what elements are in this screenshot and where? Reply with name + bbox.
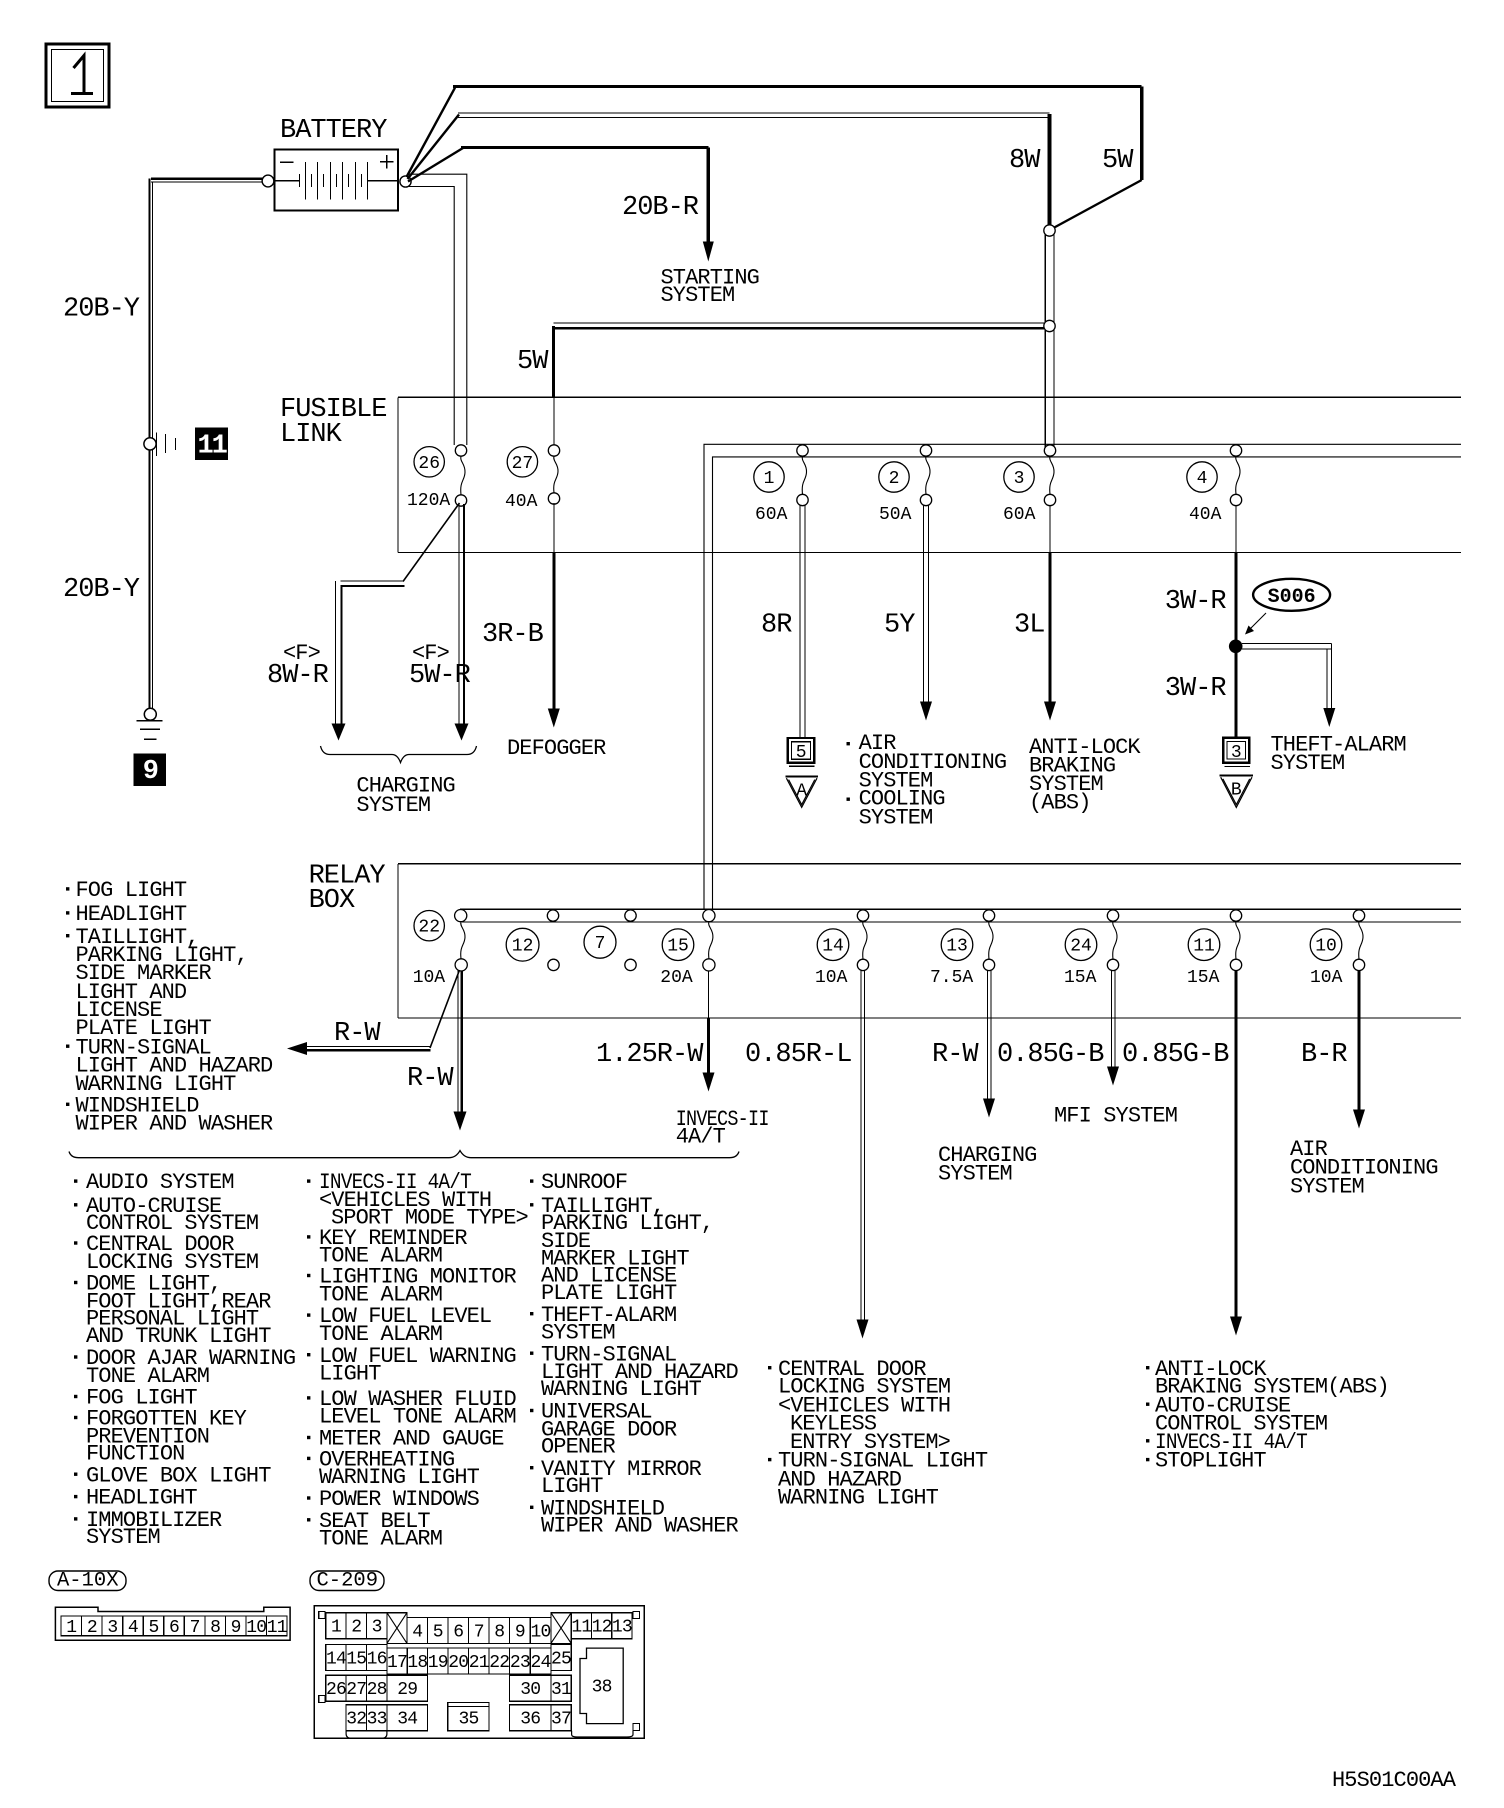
C-209 pin 2 bbox=[346, 1613, 366, 1639]
svg-text:STOPLIGHT: STOPLIGHT bbox=[1155, 1449, 1266, 1474]
svg-text:15A: 15A bbox=[1064, 968, 1097, 988]
svg-text:50A: 50A bbox=[879, 505, 912, 525]
C-209 pin 10 bbox=[530, 1617, 551, 1643]
svg-text:BATTERY: BATTERY bbox=[280, 116, 387, 146]
connector A-10X bbox=[55, 1607, 290, 1640]
fuse 4 40A bbox=[1187, 462, 1217, 492]
wire branch to theft-alarm bbox=[1242, 643, 1335, 727]
svg-text:TONE ALARM: TONE ALARM bbox=[319, 1527, 442, 1552]
svg-text:36: 36 bbox=[520, 1710, 540, 1730]
svg-text:24: 24 bbox=[1070, 937, 1092, 957]
charging system label bbox=[356, 774, 454, 818]
svg-text:7: 7 bbox=[190, 1618, 200, 1638]
C-209 pin 4 bbox=[407, 1617, 428, 1643]
svg-text:32: 32 bbox=[346, 1710, 366, 1730]
svg-text:12: 12 bbox=[512, 937, 534, 957]
svg-text:BOX: BOX bbox=[309, 886, 355, 916]
svg-text:R-W: R-W bbox=[334, 1019, 381, 1049]
svg-text:(ABS): (ABS) bbox=[1029, 791, 1091, 816]
svg-text:26: 26 bbox=[326, 1680, 346, 1700]
C-209 pin 13 bbox=[612, 1613, 632, 1639]
connector 11 in-line bbox=[144, 433, 176, 456]
fuse 3 60A bbox=[1004, 462, 1034, 492]
svg-text:FOG LIGHT: FOG LIGHT bbox=[76, 878, 187, 903]
svg-text:20: 20 bbox=[448, 1653, 468, 1673]
C-209 pin 9 bbox=[510, 1617, 531, 1643]
svg-text:9: 9 bbox=[231, 1618, 241, 1638]
svg-text:15: 15 bbox=[346, 1650, 366, 1670]
C-209 pin 31 bbox=[551, 1675, 571, 1701]
svg-text:4: 4 bbox=[128, 1618, 138, 1638]
svg-text:15A: 15A bbox=[1187, 968, 1220, 988]
svg-text:40A: 40A bbox=[505, 492, 538, 512]
svg-text:10: 10 bbox=[246, 1618, 266, 1638]
svg-text:OPENER: OPENER bbox=[541, 1435, 616, 1460]
svg-text:25: 25 bbox=[551, 1650, 571, 1670]
splice S006 callout bbox=[1245, 579, 1330, 635]
svg-text:37: 37 bbox=[551, 1710, 571, 1730]
ground number 9 box bbox=[134, 754, 166, 787]
svg-text:3W-R: 3W-R bbox=[1165, 587, 1227, 617]
svg-text:7: 7 bbox=[474, 1622, 484, 1642]
fuse 2 50A bbox=[879, 462, 909, 492]
svg-text:20A: 20A bbox=[660, 968, 693, 988]
C-209 pin 8 bbox=[489, 1617, 510, 1643]
battery BATTERY bbox=[275, 116, 399, 211]
svg-text:120A: 120A bbox=[407, 491, 450, 511]
svg-text:R-W: R-W bbox=[407, 1064, 454, 1094]
ground G9 bbox=[137, 708, 163, 739]
C-209 pin 37 bbox=[551, 1705, 571, 1731]
load list column 3 bbox=[530, 1170, 739, 1538]
air conditioning system label bbox=[847, 731, 1007, 830]
svg-text:23: 23 bbox=[510, 1653, 530, 1673]
svg-text:SYSTEM: SYSTEM bbox=[1290, 1174, 1364, 1199]
svg-text:LIGHT: LIGHT bbox=[319, 1361, 381, 1386]
svg-text:4: 4 bbox=[1197, 469, 1208, 489]
svg-text:9: 9 bbox=[515, 1622, 525, 1642]
wire 3L to ABS bbox=[1014, 506, 1056, 721]
C-209 bottom tab bbox=[346, 1731, 387, 1739]
svg-text:0.85G-B: 0.85G-B bbox=[997, 1040, 1104, 1070]
wire 8W-R to charging system bbox=[332, 503, 460, 741]
C-209 pin 20 bbox=[448, 1648, 469, 1674]
svg-text:11: 11 bbox=[197, 432, 227, 462]
C-209 pin 17 bbox=[387, 1648, 407, 1674]
wire R-W to left loads bbox=[287, 970, 460, 1055]
svg-text:38: 38 bbox=[592, 1678, 612, 1698]
svg-text:28: 28 bbox=[367, 1680, 387, 1700]
C-209 pin 3 bbox=[366, 1613, 387, 1639]
svg-text:3: 3 bbox=[1014, 469, 1025, 489]
triangle A bbox=[785, 777, 818, 808]
svg-text:27: 27 bbox=[512, 454, 534, 474]
junction node S006 bbox=[1229, 640, 1243, 654]
svg-text:10A: 10A bbox=[1310, 968, 1343, 988]
svg-text:SYSTEM: SYSTEM bbox=[938, 1162, 1012, 1187]
wire B-R to air conditioning bbox=[1301, 971, 1365, 1129]
relay box bbox=[309, 862, 1461, 1019]
svg-text:11: 11 bbox=[571, 1618, 591, 1638]
C-209 pin 16 bbox=[366, 1645, 387, 1671]
svg-text:1: 1 bbox=[66, 1618, 76, 1638]
wire 5W-R to charging system bbox=[455, 504, 469, 741]
svg-text:HEADLIGHT: HEADLIGHT bbox=[86, 1486, 197, 1511]
junction block 3 bbox=[1223, 738, 1250, 767]
svg-text:3: 3 bbox=[1231, 743, 1242, 763]
svg-text:33: 33 bbox=[367, 1710, 387, 1730]
svg-text:H5S01C00AA: H5S01C00AA bbox=[1332, 1768, 1457, 1793]
C-209 keyway X right bbox=[551, 1613, 571, 1644]
svg-text:LIGHT: LIGHT bbox=[541, 1474, 603, 1499]
svg-text:14: 14 bbox=[326, 1650, 346, 1670]
charging system brace bbox=[321, 746, 477, 763]
C-209 pin 26 bbox=[326, 1675, 346, 1701]
svg-text:26: 26 bbox=[418, 454, 440, 474]
wire 8R to junction box 5 bbox=[761, 506, 805, 739]
C-209 pin 36 bbox=[510, 1705, 551, 1731]
connector number 11 box bbox=[196, 428, 228, 461]
wire 5W to fuse 27 bbox=[517, 323, 1044, 445]
svg-text:4A/T: 4A/T bbox=[676, 1125, 726, 1150]
svg-text:8W-R: 8W-R bbox=[267, 661, 329, 691]
svg-text:60A: 60A bbox=[755, 505, 788, 525]
svg-text:29: 29 bbox=[397, 1680, 417, 1700]
svg-text:10A: 10A bbox=[413, 968, 446, 988]
svg-text:18: 18 bbox=[407, 1653, 427, 1673]
svg-text:WARNING LIGHT: WARNING LIGHT bbox=[541, 1377, 702, 1402]
label F 5W-R bbox=[409, 641, 471, 691]
svg-text:0.85G-B: 0.85G-B bbox=[1122, 1040, 1229, 1070]
svg-text:SYSTEM: SYSTEM bbox=[859, 805, 933, 830]
svg-text:S006: S006 bbox=[1268, 586, 1316, 609]
C-209 keyway X left bbox=[387, 1613, 407, 1644]
relay fuse 15 20A bbox=[660, 910, 715, 989]
svg-text:2: 2 bbox=[87, 1618, 97, 1638]
wire R-W down from fuse 22 bbox=[407, 971, 467, 1131]
svg-text:6: 6 bbox=[453, 1622, 463, 1642]
relay box bus bbox=[460, 909, 1461, 922]
C-209 pin 14 bbox=[326, 1645, 346, 1671]
connector C-209 bbox=[314, 1606, 644, 1739]
wire 20B-R to starting system bbox=[408, 148, 714, 262]
svg-text:5Y: 5Y bbox=[884, 611, 915, 641]
svg-text:7: 7 bbox=[595, 934, 606, 954]
C-209 pin 15 bbox=[346, 1645, 366, 1671]
relay fuse 11 15A bbox=[1188, 929, 1220, 961]
C-209 pin 23 bbox=[510, 1648, 531, 1674]
node bundle top bbox=[1044, 225, 1055, 236]
svg-text:21: 21 bbox=[469, 1653, 489, 1673]
triangle B bbox=[1220, 776, 1254, 808]
svg-text:5W-R: 5W-R bbox=[409, 661, 471, 691]
svg-text:10: 10 bbox=[1315, 937, 1337, 957]
air conditioning label lower bbox=[1290, 1137, 1438, 1199]
anti-lock braking system label bbox=[1029, 735, 1141, 816]
C-209 pin 5 bbox=[428, 1617, 449, 1643]
C-209 pin 38 bbox=[580, 1648, 623, 1724]
wire 8W top feed bbox=[408, 113, 1050, 226]
relay fuse 12 spare bbox=[506, 910, 559, 971]
C-209 bottom tab right bbox=[572, 1731, 633, 1737]
svg-text:R-W: R-W bbox=[932, 1040, 979, 1070]
svg-text:1.25R-W: 1.25R-W bbox=[596, 1040, 704, 1070]
C-209 pin 32 bbox=[346, 1705, 366, 1731]
svg-text:8: 8 bbox=[494, 1622, 504, 1642]
svg-text:22: 22 bbox=[489, 1653, 509, 1673]
svg-text:13: 13 bbox=[612, 1618, 632, 1638]
wire bundle 8W/5W vertical bbox=[1045, 231, 1054, 449]
svg-text:34: 34 bbox=[397, 1710, 417, 1730]
svg-text:20B-Y: 20B-Y bbox=[63, 295, 140, 325]
C-209 pin 34 bbox=[387, 1705, 428, 1731]
charging system label lower bbox=[938, 1143, 1036, 1187]
relay box left load list bbox=[66, 878, 273, 1137]
svg-text:5: 5 bbox=[148, 1618, 158, 1638]
abs cruise list bbox=[1146, 1357, 1389, 1474]
svg-text:0.85R-L: 0.85R-L bbox=[745, 1040, 851, 1070]
INVECS label bbox=[676, 1107, 769, 1150]
svg-text:20B-Y: 20B-Y bbox=[63, 575, 140, 605]
svg-text:DEFOGGER: DEFOGGER bbox=[507, 736, 606, 761]
relay fuse 14 10A bbox=[817, 929, 849, 961]
svg-text:17: 17 bbox=[387, 1653, 407, 1673]
C-209 pin 33 bbox=[366, 1705, 387, 1731]
load list column 1 bbox=[74, 1170, 295, 1550]
C-209 pin 30 bbox=[510, 1675, 551, 1701]
svg-text:27: 27 bbox=[346, 1680, 366, 1700]
connector C-209 label bbox=[310, 1570, 384, 1593]
node 5W exit bbox=[1044, 320, 1055, 331]
C-209 pin 6 bbox=[448, 1617, 469, 1643]
svg-text:9: 9 bbox=[143, 757, 158, 787]
C-209 pin 24 bbox=[530, 1648, 551, 1674]
relay fuse 7 spare bbox=[584, 910, 636, 971]
page number box 1 bbox=[46, 44, 109, 107]
relay fuse 13 7.5A bbox=[941, 929, 973, 961]
svg-text:8R: 8R bbox=[761, 611, 792, 641]
svg-text:B-R: B-R bbox=[1301, 1040, 1347, 1070]
svg-text:16: 16 bbox=[367, 1650, 387, 1670]
fusible link box bbox=[280, 395, 1461, 553]
C-209 pin 22 bbox=[489, 1648, 510, 1674]
svg-text:5W: 5W bbox=[1102, 146, 1134, 176]
wire 0.85R-L to central door locking bbox=[745, 971, 869, 1339]
fusible link 26 120A bbox=[414, 447, 444, 477]
svg-text:13: 13 bbox=[946, 937, 968, 957]
theft-alarm system label bbox=[1271, 733, 1406, 777]
svg-text:19: 19 bbox=[428, 1653, 448, 1673]
svg-text:40A: 40A bbox=[1189, 505, 1222, 525]
C-209 pin 29 bbox=[387, 1675, 428, 1701]
svg-text:15: 15 bbox=[667, 937, 689, 957]
C-209 pin 11 bbox=[571, 1613, 591, 1639]
C-209 pin 18 bbox=[407, 1648, 427, 1674]
svg-text:C-209: C-209 bbox=[317, 1570, 379, 1593]
svg-text:7.5A: 7.5A bbox=[930, 968, 973, 988]
svg-text:10A: 10A bbox=[815, 968, 848, 988]
svg-text:20B-R: 20B-R bbox=[622, 193, 699, 223]
svg-text:SUNROOF: SUNROOF bbox=[541, 1170, 627, 1195]
svg-text:5: 5 bbox=[796, 743, 807, 763]
C-209 pin 21 bbox=[469, 1648, 490, 1674]
svg-text:SYSTEM: SYSTEM bbox=[1271, 751, 1345, 776]
svg-text:6: 6 bbox=[169, 1618, 179, 1638]
fusible link bus for fuses 1-4 bbox=[704, 444, 1461, 910]
relay fuse 22 10A bbox=[413, 910, 468, 989]
svg-text:11: 11 bbox=[267, 1618, 287, 1638]
C-209 pin 7 bbox=[469, 1617, 490, 1643]
svg-text:WIPER AND WASHER: WIPER AND WASHER bbox=[76, 1112, 274, 1137]
fuse 1 60A bbox=[754, 462, 784, 492]
loads brace bbox=[69, 1151, 739, 1158]
svg-text:2: 2 bbox=[889, 469, 900, 489]
svg-text:3: 3 bbox=[372, 1618, 382, 1638]
svg-text:A-10X: A-10X bbox=[57, 1570, 119, 1593]
battery positive terminal node bbox=[400, 176, 411, 187]
svg-text:WARNING LIGHT: WARNING LIGHT bbox=[778, 1485, 939, 1510]
wire 3W-R to junction block 3 bbox=[1165, 651, 1236, 738]
wire 0.85G-B to ABS list bbox=[1122, 971, 1242, 1336]
svg-text:5W: 5W bbox=[517, 347, 549, 377]
C-209 pin 12 bbox=[592, 1613, 612, 1639]
svg-text:5: 5 bbox=[433, 1622, 443, 1642]
svg-text:31: 31 bbox=[551, 1680, 571, 1700]
svg-text:SYSTEM: SYSTEM bbox=[661, 283, 735, 308]
wire 3W-R from fuse 4 bbox=[1165, 506, 1236, 647]
svg-text:GLOVE BOX LIGHT: GLOVE BOX LIGHT bbox=[86, 1463, 271, 1488]
C-209 pin 28 bbox=[366, 1675, 387, 1701]
svg-text:LINK: LINK bbox=[280, 420, 343, 450]
svg-text:22: 22 bbox=[418, 918, 440, 938]
connector A-10X label bbox=[49, 1570, 126, 1593]
svg-text:60A: 60A bbox=[1003, 505, 1036, 525]
load list column 2 bbox=[307, 1170, 528, 1551]
C-209 pin 35 bbox=[448, 1702, 489, 1730]
C-209 pin 1 bbox=[326, 1613, 346, 1639]
svg-text:AUDIO SYSTEM: AUDIO SYSTEM bbox=[86, 1170, 234, 1195]
svg-text:14: 14 bbox=[822, 937, 844, 957]
svg-text:1: 1 bbox=[331, 1618, 341, 1638]
svg-text:11: 11 bbox=[1193, 937, 1215, 957]
svg-text:35: 35 bbox=[458, 1710, 478, 1730]
C-209 pin 25 bbox=[551, 1645, 571, 1671]
svg-text:HEADLIGHT: HEADLIGHT bbox=[76, 902, 187, 927]
wire 5W top feed bbox=[407, 87, 1142, 229]
wire 5Y to air conditioning bbox=[884, 506, 932, 721]
svg-text:3W-R: 3W-R bbox=[1165, 674, 1227, 704]
svg-text:30: 30 bbox=[520, 1680, 540, 1700]
svg-text:A: A bbox=[796, 782, 807, 802]
fusible link 27 40A bbox=[507, 447, 537, 477]
svg-text:B: B bbox=[1231, 781, 1242, 801]
svg-text:SYSTEM: SYSTEM bbox=[86, 1525, 160, 1550]
svg-text:3L: 3L bbox=[1014, 611, 1044, 641]
starting system label bbox=[661, 266, 759, 309]
junction block 5 bbox=[788, 738, 815, 766]
svg-text:1: 1 bbox=[764, 469, 775, 489]
svg-text:3R-B: 3R-B bbox=[482, 620, 544, 650]
label F 8W-R bbox=[267, 641, 329, 691]
wire battery to fusible link 26 bbox=[408, 174, 467, 445]
svg-text:8W: 8W bbox=[1009, 146, 1041, 176]
svg-text:24: 24 bbox=[531, 1653, 551, 1673]
C-209 pin 19 bbox=[428, 1648, 449, 1674]
wire 3R-B to defogger bbox=[482, 503, 560, 728]
central door locking list bbox=[768, 1357, 988, 1511]
svg-text:SYSTEM: SYSTEM bbox=[356, 793, 430, 818]
wire 0.85G-B to MFI bbox=[997, 971, 1119, 1086]
wire 1.25R-W to INVECS bbox=[596, 971, 715, 1092]
battery negative terminal bbox=[262, 175, 274, 187]
svg-text:10: 10 bbox=[531, 1622, 551, 1642]
svg-text:12: 12 bbox=[592, 1618, 612, 1638]
relay fuse 24 15A bbox=[1065, 929, 1097, 961]
svg-text:MFI SYSTEM: MFI SYSTEM bbox=[1054, 1104, 1177, 1129]
svg-text:8: 8 bbox=[210, 1618, 220, 1638]
svg-text:2: 2 bbox=[351, 1618, 361, 1638]
wire 20B-Y battery to ground bbox=[150, 179, 263, 709]
svg-text:WIPER AND WASHER: WIPER AND WASHER bbox=[541, 1514, 739, 1539]
svg-text:3: 3 bbox=[107, 1618, 117, 1638]
wire R-W to charging system bbox=[932, 971, 995, 1118]
relay fuse 10 10A bbox=[1310, 929, 1342, 961]
svg-text:4: 4 bbox=[412, 1622, 422, 1642]
C-209 pin 27 bbox=[346, 1675, 366, 1701]
